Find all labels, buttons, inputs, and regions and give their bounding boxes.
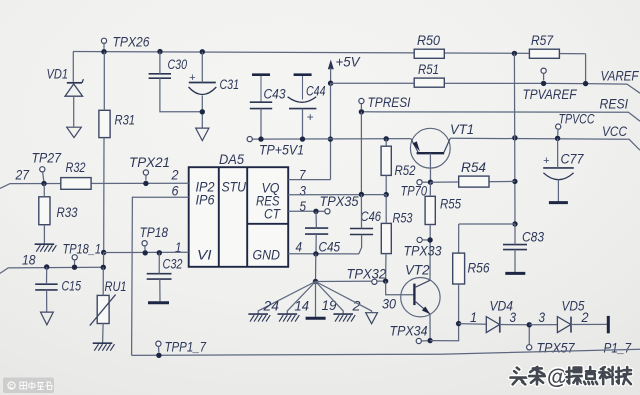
svg-text:C45: C45	[319, 240, 341, 256]
wire C31 top stem	[201, 52, 203, 83]
IC DA5 internal separator left column	[218, 167, 220, 267]
svg-text:2: 2	[171, 168, 179, 184]
node TP18 junction	[143, 250, 148, 255]
svg-text:24: 24	[263, 299, 280, 315]
power +5V arrow	[328, 60, 334, 70]
ground pin 14	[278, 313, 298, 315]
svg-text:+: +	[189, 72, 196, 84]
wire C77 top stem	[557, 138, 559, 168]
svg-text:4: 4	[296, 240, 303, 256]
svg-text:C77: C77	[561, 152, 585, 168]
wire fan to arrow ground	[316, 282, 372, 313]
wire C83 row	[459, 223, 515, 225]
test point TPX21 circle	[143, 170, 148, 175]
node TPX21 junction	[143, 181, 148, 186]
test point TPX26 circle	[101, 38, 106, 43]
wire left rail down to VD1	[72, 52, 74, 82]
ground below R33	[35, 243, 55, 245]
svg-text:C32: C32	[163, 257, 183, 273]
watermark bottom-left tuchong	[3, 378, 54, 394]
svg-text:STU: STU	[222, 180, 247, 196]
node row18 RU1 junction	[101, 265, 106, 270]
svg-text:P1_7: P1_7	[604, 341, 632, 357]
wire diode row segment 3	[529, 324, 557, 326]
svg-text:VT2: VT2	[405, 263, 430, 279]
resistor R31	[99, 110, 110, 137]
svg-text:c: c	[9, 382, 13, 391]
wire TP+5V1 row	[252, 138, 410, 141]
wire pin 4 row	[288, 253, 359, 255]
wire pin 6 from DA5 down to bottom rail	[132, 197, 189, 355]
wire TPX34 junction to diode row	[430, 324, 459, 341]
test point TPX32 circle	[372, 279, 377, 284]
svg-text:C83: C83	[522, 230, 544, 246]
node C30 top junction	[157, 49, 162, 54]
svg-text:TP70: TP70	[401, 184, 428, 200]
wire R33 bottom stem	[43, 225, 45, 244]
test point TP18_1 circle	[72, 255, 77, 260]
wire C32 top stem	[158, 253, 160, 274]
test point TP70 circle	[417, 180, 422, 185]
transistor VT1 base bar	[417, 152, 445, 154]
svg-text:TPX33: TPX33	[404, 244, 442, 260]
wire RU1 bottom stem	[102, 324, 105, 343]
wire C83 top stem	[514, 224, 516, 245]
node R52 R53 junction pin3 row	[384, 192, 389, 197]
wire bottom rail net P1_7	[132, 349, 640, 355]
wire TPX57 stem	[528, 327, 530, 344]
test point TPX35 circle	[325, 209, 330, 214]
IC DA5 internal horizontal separator	[247, 223, 288, 225]
node TPX26 junction	[101, 49, 106, 54]
wire pin 7 row to +5V vertical	[288, 179, 330, 181]
svg-text:TPX21: TPX21	[129, 155, 170, 171]
wire C32 bottom stem	[159, 279, 161, 301]
test point TPVCC circle	[556, 124, 561, 129]
wire C45 bottom stem	[315, 234, 317, 254]
svg-text:TP18_1: TP18_1	[63, 242, 102, 258]
wire R31 bottom to pin1 row	[103, 138, 105, 253]
transistor VT2 collector segment	[414, 280, 430, 287]
svg-text:+: +	[543, 155, 550, 167]
svg-text:+5V: +5V	[336, 55, 361, 71]
test point TPX33 circle	[417, 237, 422, 242]
capacitor C31 polarized	[189, 82, 216, 84]
svg-text:VI: VI	[197, 248, 212, 264]
wire R55 bottom to VT2 collector	[429, 225, 431, 281]
svg-text:TPX26: TPX26	[113, 35, 150, 51]
svg-text:TP18: TP18	[140, 225, 169, 241]
svg-text:TPVAREF: TPVAREF	[523, 87, 578, 103]
wire R52-R53 connection stem	[385, 195, 387, 224]
node pin4 C45 junction	[313, 251, 318, 256]
ground arrow below C31	[196, 128, 209, 141]
wire C45 top stem	[315, 211, 317, 228]
wire pin 1 row	[104, 251, 189, 253]
node +5V junction on R51 row	[328, 81, 333, 86]
node diode row junction R56	[456, 321, 461, 326]
ground pin 2	[333, 313, 353, 315]
IC DA5 internal separator right column	[246, 167, 248, 267]
wire VCC row from VT1 to exit	[450, 138, 640, 150]
node TPX33 junction	[427, 237, 432, 242]
svg-text:C43: C43	[264, 87, 286, 103]
wire R52 top stem	[385, 139, 387, 146]
test point TPVAREF circle	[541, 68, 546, 73]
ground arrow below VD1	[67, 127, 82, 137]
svg-text:TP+5V1: TP+5V1	[259, 143, 304, 159]
svg-text:VAREF: VAREF	[601, 69, 640, 85]
wire pin 5 row	[288, 210, 316, 212]
node C44 junction	[300, 136, 305, 141]
resistor R50	[414, 49, 444, 58]
wire fan to ground 2	[316, 282, 344, 314]
capacitor C77 polarized	[543, 167, 574, 169]
wire VD1 anode to arrow	[73, 96, 75, 127]
ground bar below C77	[549, 201, 568, 204]
svg-text:TPRESI: TPRESI	[368, 95, 411, 111]
svg-text:R33: R33	[57, 205, 78, 221]
wire row 18 entry	[0, 267, 104, 273]
svg-text:R32: R32	[66, 160, 86, 176]
node C30 C31 ground junction	[200, 109, 205, 114]
node C32 junction	[157, 250, 162, 255]
node V515 junction on R54 row	[512, 179, 517, 184]
svg-text:R56: R56	[468, 261, 490, 277]
transistor VT1 collector segment	[444, 139, 450, 153]
wire R54 row	[431, 180, 515, 183]
wire diode row segment 4	[571, 323, 607, 325]
node TP70 junction	[428, 180, 433, 185]
wire +5V vertical to pin7 row	[330, 83, 332, 179]
wire C44 bottom stem	[302, 109, 304, 140]
wire R51 row from +5V to VAREF exit	[331, 83, 640, 93]
svg-text:R57: R57	[531, 33, 554, 49]
svg-text:R31: R31	[115, 113, 136, 129]
IC DA5 box	[189, 167, 289, 267]
svg-text:TPP1_7: TPP1_7	[165, 340, 207, 356]
svg-text:R55: R55	[440, 197, 461, 213]
node C43 junction	[258, 136, 263, 141]
node R31 pin1 junction	[101, 250, 106, 255]
svg-text:27: 27	[15, 168, 30, 184]
test point TPX34 circle	[416, 338, 421, 343]
capacitor C45	[305, 227, 328, 229]
wire C15 top stem	[46, 267, 48, 284]
svg-text:TPX35: TPX35	[320, 194, 359, 210]
wire C30 top stem	[159, 52, 161, 74]
wire RU1 top stem	[102, 267, 104, 295]
wire fan to TPX32 junction	[316, 280, 386, 282]
wire pin 3 row	[288, 194, 386, 196]
wire C30 bottom to shared ground wire	[160, 78, 202, 112]
svg-text:2: 2	[581, 310, 589, 326]
wire R56 bottom to diode row junction	[458, 284, 460, 324]
capacitor C44 polarized with top bar	[294, 73, 312, 76]
svg-text:TPVCC: TPVCC	[559, 112, 596, 128]
test point TP+5V1 circle	[247, 137, 252, 142]
zener diode VD1	[65, 84, 83, 96]
svg-text:3: 3	[510, 310, 517, 326]
watermark bottom-right toutiao tandian keji	[511, 368, 527, 385]
wire V515 rail	[513, 53, 516, 224]
resistor R57	[529, 49, 559, 58]
wire C43 bottom stem	[260, 109, 262, 140]
svg-text:7: 7	[299, 168, 306, 184]
node TPX57 junction	[527, 322, 532, 327]
wire diode row segment 1	[459, 323, 487, 326]
svg-text:TPX34: TPX34	[390, 324, 428, 340]
svg-text:IP6: IP6	[196, 193, 215, 209]
wire C77 bottom stem	[557, 180, 559, 202]
capacitor C46	[350, 228, 373, 230]
capacitor C43 with top bar	[252, 73, 270, 76]
resistor R56	[453, 253, 465, 284]
node VAREF corner junction	[583, 81, 588, 86]
wire RESI row	[361, 112, 640, 121]
ground arrow below C15	[41, 312, 54, 325]
node pin3 C46 junction	[359, 192, 364, 197]
node TPX35 junction	[313, 209, 318, 214]
node R52 top junction	[384, 136, 389, 141]
resistor R33	[39, 197, 50, 225]
test point TPRESI circle	[359, 98, 364, 103]
ground bar below C32	[148, 301, 169, 304]
transistor VT1 emitter segment with arrow	[411, 139, 418, 153]
svg-text:C31: C31	[220, 77, 240, 93]
svg-text:3: 3	[539, 310, 546, 326]
ground bar below C83	[505, 272, 525, 275]
svg-text:VD1: VD1	[47, 67, 69, 83]
test point TPP1_7 circle	[156, 341, 161, 346]
wire C83 bottom stem	[514, 250, 516, 273]
node ground fan junction	[313, 279, 318, 284]
transistor VT2 base bar	[413, 284, 415, 306]
svg-text:1: 1	[175, 240, 182, 256]
wire pin4 junction down to fan node	[315, 254, 317, 282]
wire C46 top stem	[360, 195, 362, 229]
ground below RU1	[93, 342, 113, 344]
wire diode row segment 2	[500, 324, 530, 326]
wire R56 top stem	[458, 224, 460, 253]
wire VT2 base from R53 column	[386, 281, 415, 295]
wire top rail net TPX26 from corner above VD1 to R57 corner	[73, 52, 586, 54]
svg-text:3: 3	[300, 184, 307, 200]
resistor R32	[61, 178, 91, 190]
node TPVCC C77 junction	[555, 136, 560, 141]
wire VT1 base stem down to TP70	[429, 153, 431, 182]
svg-text:R54: R54	[461, 160, 486, 176]
capacitor C32	[147, 273, 172, 275]
ground bar pin 19	[306, 317, 326, 320]
transistor VT2 circle	[401, 278, 440, 317]
wire fan to ground 19	[315, 282, 317, 318]
svg-text:DA5: DA5	[219, 152, 244, 168]
resistor R51	[414, 78, 444, 87]
svg-text:C46: C46	[361, 209, 382, 225]
resistor R53	[381, 223, 391, 253]
resistor R55	[425, 196, 435, 224]
wire R55 top stem	[429, 182, 431, 196]
wire R53 bottom to TPX32 junction	[385, 254, 387, 282]
svg-text:TPX57: TPX57	[537, 341, 576, 357]
svg-text:R53: R53	[393, 211, 413, 227]
svg-text:C44: C44	[306, 84, 326, 100]
resistor R52	[381, 146, 391, 175]
transistor VT2 emitter segment with arrow	[414, 301, 430, 314]
capacitor C30	[149, 73, 171, 75]
svg-text:19: 19	[322, 298, 337, 314]
test point TP18 circle	[142, 241, 147, 246]
svg-text:C30: C30	[168, 57, 188, 73]
node C15 junction	[44, 264, 49, 269]
varistor RU1 box	[97, 295, 109, 323]
resistor R54	[459, 176, 489, 187]
node TPP1_7 junction	[156, 353, 161, 358]
node TP18_1 junction	[72, 265, 77, 270]
svg-text:5: 5	[300, 199, 307, 215]
svg-text:RESI: RESI	[600, 97, 629, 113]
wire R52 bottom to pin3 row	[385, 175, 387, 194]
svg-text:1: 1	[470, 310, 477, 326]
svg-text:18: 18	[22, 253, 36, 269]
svg-text:CT: CT	[264, 207, 281, 223]
node TPRESI junction	[359, 109, 364, 114]
svg-text:VCC: VCC	[602, 124, 628, 140]
diode VD4	[486, 317, 499, 333]
wire C46 bottom jog to pin4 row	[359, 235, 362, 254]
ground arrow right of fan	[366, 313, 378, 324]
node TP27 junction	[41, 181, 46, 186]
node TPX34 junction	[427, 338, 432, 343]
wire row 27 to DA5 pin 2	[0, 183, 189, 188]
wire R31 top stem	[103, 52, 105, 111]
ground pin 24	[248, 313, 268, 315]
node TPVAREF junction	[541, 81, 546, 86]
wire fan to ground 24	[258, 282, 315, 314]
capacitor C15	[35, 283, 57, 285]
svg-text:R50: R50	[417, 33, 440, 49]
wire C15 bottom stem	[46, 290, 48, 312]
varistor RU1 diagonal	[90, 295, 116, 326]
svg-text:GND: GND	[253, 248, 281, 264]
test point TP27 circle	[40, 167, 45, 172]
svg-text:+: +	[307, 110, 314, 124]
terminal P1_7 bar	[607, 316, 610, 333]
svg-text:RU1: RU1	[105, 279, 127, 295]
capacitor C83	[503, 244, 527, 246]
wire R33 top stem	[43, 184, 45, 197]
svg-text:VT1: VT1	[450, 122, 474, 138]
svg-text:C15: C15	[62, 279, 82, 295]
node V515 junction C83 row	[512, 221, 517, 226]
wire fan to ground 14	[287, 282, 315, 314]
diode VD5	[557, 317, 570, 333]
transistor VT1 circle	[410, 128, 450, 168]
svg-text:TPX32: TPX32	[347, 267, 387, 283]
test point TPX57 circle	[527, 345, 532, 350]
wire TPRESI vertical down to pin3 row	[360, 112, 362, 195]
node junction R50-R57 top of V515 rail	[512, 51, 517, 56]
svg-text:R52: R52	[395, 163, 416, 179]
wire jog between pin1 row and row 18	[103, 253, 105, 268]
node V515 junction on VCC row	[512, 135, 517, 140]
wire R57 right corner down to VAREF row	[585, 54, 587, 84]
wire C31 bottom stem	[201, 96, 203, 128]
svg-text:TP27: TP27	[32, 151, 62, 167]
svg-text:14: 14	[295, 299, 310, 315]
node TPX32 junction	[383, 278, 388, 283]
node C31 top junction	[200, 49, 205, 54]
svg-text:30: 30	[382, 297, 396, 313]
node +5V junction on TP+5V1 row	[328, 136, 333, 141]
wire VT2 emitter down to TPX34 junction	[429, 314, 431, 341]
svg-text:R51: R51	[418, 62, 439, 78]
